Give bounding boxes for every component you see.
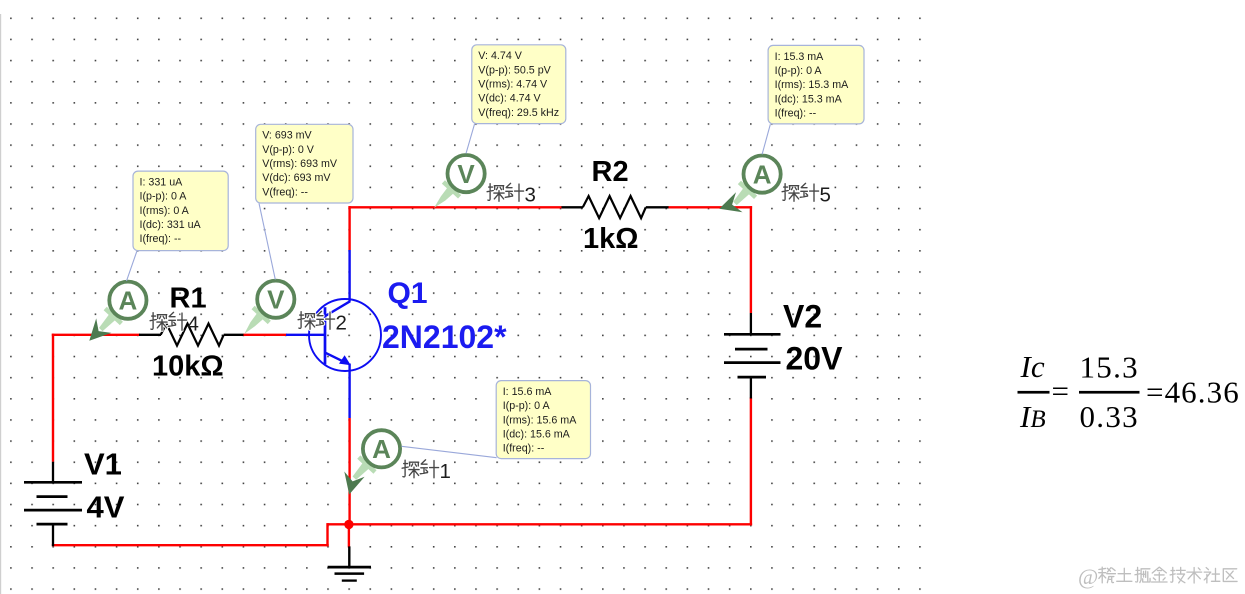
svg-text:0.33: 0.33	[1080, 399, 1139, 434]
battery V1	[24, 462, 82, 546]
svg-text:2N2102*: 2N2102*	[382, 319, 507, 355]
svg-text:10kΩ: 10kΩ	[152, 351, 224, 383]
transistor Q1 (2N2102 NPN)	[309, 299, 381, 371]
wire: junction down to ground stem (red)	[348, 524, 350, 547]
svg-text:V(rms): 693 mV: V(rms): 693 mV	[262, 158, 338, 170]
svg-text:1kΩ: 1kΩ	[583, 223, 639, 255]
wire: bottom-left step vertical	[326, 523, 328, 546]
svg-text:I(dc): 15.6 mA: I(dc): 15.6 mA	[503, 429, 571, 441]
node label V 探针3 (collector voltage)	[487, 183, 536, 206]
svg-text:I(p-p): 0 A: I(p-p): 0 A	[140, 191, 188, 203]
svg-text:V(p-p): 0 V: V(p-p): 0 V	[262, 144, 315, 156]
wire: V2- down to bottom net	[750, 398, 752, 526]
svg-text:V1: V1	[84, 447, 122, 482]
svg-text:V: 4.74 V: V: 4.74 V	[478, 50, 522, 62]
probe V 探针3 (collector voltage)	[434, 155, 485, 208]
wire: Q1 emitter (blue)	[348, 364, 350, 419]
svg-text:A: A	[119, 285, 138, 315]
canvas left edge	[0, 14, 1, 594]
svg-text:V(freq): 29.5 kHz: V(freq): 29.5 kHz	[478, 107, 559, 119]
svg-text:V(rms): 4.74 V: V(rms): 4.74 V	[478, 79, 548, 91]
svg-text:I(freq): --: I(freq): --	[503, 443, 545, 455]
svg-text:V: V	[457, 159, 475, 189]
svg-text:R2: R2	[592, 156, 629, 188]
formula Ic/IB = 15.3/0.33 = 46.36	[1018, 349, 1240, 434]
wire: Q1 base lead (blue)	[286, 334, 326, 336]
watermark @稀土掘金技术社区	[1078, 564, 1237, 589]
node label A 探针1 (emitter current)	[402, 460, 451, 483]
svg-text:A: A	[753, 159, 772, 189]
svg-text:I(p-p): 0 A: I(p-p): 0 A	[775, 65, 823, 77]
node label V 探针2 (base voltage)	[298, 311, 347, 334]
probe A 探针1 (emitter current)	[344, 430, 400, 494]
node label A 探针5 (collector current)	[782, 183, 831, 206]
measurement box probe1 (I emitter)	[496, 381, 590, 459]
measurement box probe5 (I collector)	[768, 45, 864, 124]
svg-text:20V: 20V	[786, 340, 844, 376]
svg-text:I: 15.6 mA: I: 15.6 mA	[503, 386, 553, 398]
svg-text:Ic: Ic	[1020, 349, 1045, 384]
callout leader probe2	[259, 203, 275, 279]
wire: collector to top net (red)	[348, 206, 350, 250]
svg-text:I(freq): --: I(freq): --	[140, 233, 182, 245]
svg-text:I(p-p): 0 A: I(p-p): 0 A	[503, 400, 551, 412]
svg-text:I: 331 uA: I: 331 uA	[140, 177, 184, 189]
svg-text:V(dc): 4.74 V: V(dc): 4.74 V	[478, 93, 541, 105]
callout leader probe3	[466, 124, 475, 154]
measurement box probe3 (V collector)	[472, 45, 566, 124]
svg-text:@: @	[1078, 564, 1098, 589]
measurement box probe2 (V base)	[256, 124, 353, 203]
svg-text:I(rms): 0 A: I(rms): 0 A	[140, 205, 190, 217]
wire: top horizontal to R2 left	[348, 206, 562, 208]
svg-text:4V: 4V	[87, 489, 125, 524]
node junction (emitter/V1/V2/ground)	[344, 520, 353, 529]
svg-text:4: 4	[188, 313, 199, 336]
wire: emitter down to junction (red)	[348, 418, 350, 525]
svg-text:Q1: Q1	[388, 277, 428, 310]
wire: bottom horizontal junction to V2	[328, 523, 753, 525]
wire: V1 top to R1 (horizontal, net base-left)	[52, 334, 140, 336]
svg-text:I(rms): 15.6 mA: I(rms): 15.6 mA	[503, 414, 578, 426]
svg-text:2: 2	[336, 312, 347, 335]
measurement box probe4 (I base)	[133, 171, 228, 251]
wire: bottom-left horizontal from V1-	[52, 544, 329, 546]
callout leader probe1	[402, 446, 497, 457]
resistor R1	[139, 334, 161, 336]
svg-text:A: A	[372, 434, 391, 464]
svg-text:I(dc): 15.3 mA: I(dc): 15.3 mA	[775, 93, 843, 105]
callout leader probe5	[762, 124, 770, 154]
wire: R2 right to top-right corner	[668, 206, 752, 208]
wire: Q1 collector (blue)	[348, 250, 350, 302]
svg-text:I(freq): --: I(freq): --	[775, 108, 817, 120]
wire: R1 right lead to Q1 base (red part)	[243, 334, 287, 336]
wire: left vertical V1+	[52, 334, 54, 462]
resistor R2	[562, 206, 584, 208]
svg-text:5: 5	[820, 184, 831, 207]
svg-text:15.3: 15.3	[1080, 350, 1139, 385]
svg-text:3: 3	[525, 184, 536, 207]
probe V 探针2 (base voltage)	[244, 281, 294, 334]
svg-text:V(freq): --: V(freq): --	[262, 186, 308, 198]
svg-text:V(p-p): 50.5 pV: V(p-p): 50.5 pV	[478, 64, 551, 76]
svg-text:1: 1	[440, 460, 451, 483]
svg-text:V: V	[267, 284, 285, 314]
ground	[328, 546, 371, 580]
callout leader probe4	[127, 251, 138, 281]
grid dots	[2, 8, 924, 594]
svg-text:I(rms): 15.3 mA: I(rms): 15.3 mA	[775, 79, 850, 91]
svg-text:I(dc): 331 uA: I(dc): 331 uA	[140, 219, 202, 231]
probe A 探针4 (base current)	[89, 282, 146, 341]
wire: right vertical down to V2+	[750, 206, 752, 313]
svg-text:=46.36: =46.36	[1146, 375, 1240, 410]
svg-text:I: 15.3 mA: I: 15.3 mA	[775, 51, 825, 63]
battery V2	[724, 313, 781, 399]
node label A 探针4 (base current)	[150, 312, 199, 335]
svg-text:V(dc): 693 mV: V(dc): 693 mV	[262, 172, 331, 184]
probe A 探针5 (collector current)	[719, 156, 780, 213]
svg-text:V: 693 mV: V: 693 mV	[262, 130, 312, 142]
svg-text:R1: R1	[170, 283, 207, 315]
svg-text:V2: V2	[783, 298, 822, 334]
svg-text:=: =	[1052, 374, 1069, 409]
